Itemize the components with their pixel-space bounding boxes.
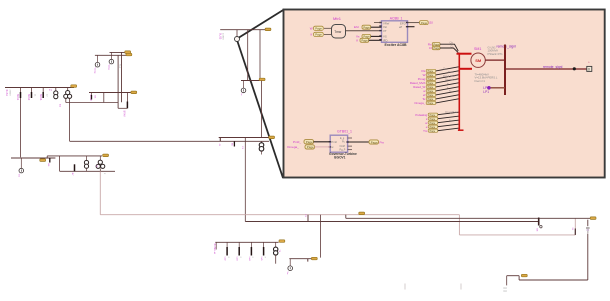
page tag pair feeding machine upper input: [428, 42, 458, 51]
callout circle (zoom source marker): [235, 37, 240, 42]
page tag Rated_W: [413, 83, 459, 89]
svg-text:remote_signl: remote_signl: [497, 45, 517, 49]
wire SRC1 down: [587, 234, 589, 281]
page tag Pmag: [418, 75, 460, 81]
jog riser: [518, 276, 520, 280]
svg-text:BUS3: BUS3: [218, 33, 221, 40]
wire tag-to-Tmw: [324, 27, 332, 29]
svg-text:Page: Page: [361, 39, 368, 43]
wire Omega_0 to governor (light): [315, 146, 331, 148]
pin1 stub left top: [374, 22, 382, 24]
long feeder FD3 (dark): [346, 217, 591, 219]
tag on bus B5: [269, 136, 275, 139]
svg-text:Page: Page: [421, 21, 428, 25]
wire W3: [241, 80, 263, 82]
wire LP to bus: [491, 87, 506, 89]
feeder FD3 jog: [345, 215, 347, 219]
svg-text:IFD: IFD: [383, 38, 388, 42]
transformer T6: [275, 242, 277, 247]
svg-text:Page: Page: [306, 140, 313, 144]
block Tmw: [332, 25, 346, 39]
tag on bus B1: [71, 85, 77, 88]
tag on S4b: [103, 154, 109, 157]
page tag Rated_MVA: [410, 79, 459, 85]
bus B6: [215, 241, 278, 243]
breaker BRK8: [538, 218, 540, 226]
source symbol SRC1: [586, 227, 590, 229]
svg-text:230kV: 230kV: [9, 90, 11, 97]
page tag Fls: [421, 67, 459, 73]
breaker BRK5: [91, 93, 93, 96]
stub to zoom marker: [236, 30, 238, 37]
tag on W3: [259, 78, 265, 81]
svg-text:Page: Page: [430, 126, 436, 129]
bus B5 upper: [219, 137, 271, 139]
transformer T5 (3-winding): [99, 156, 101, 160]
meter M3: [243, 81, 245, 89]
page tag Pm out: [369, 140, 379, 144]
svg-text:Page: Page: [434, 43, 440, 46]
svg-text:Page: Page: [430, 122, 436, 125]
page tag Pulsating: [415, 112, 459, 117]
wire FD1 tap to G cluster: [319, 215, 321, 258]
wire W5: [289, 258, 311, 260]
svg-text:Page: Page: [315, 27, 322, 31]
callout line bottom: [238, 42, 284, 179]
feeder breaker FB5: [263, 242, 265, 247]
svg-text:PSlack=0T1: PSlack=0T1: [488, 52, 504, 56]
svg-text:Page: Page: [428, 94, 434, 97]
feeder breaker BRK1: [20, 88, 22, 93]
svg-text:+: +: [588, 61, 590, 65]
net labels: [450, 42, 454, 48]
svg-text:AC8B_1: AC8B_1: [390, 16, 403, 20]
net name labels on wires: [443, 68, 447, 70]
exciter pin nubs: [379, 22, 408, 41]
wire B5 to lower feeder: [244, 138, 246, 222]
callout line top: [239, 10, 284, 38]
svg-text:Pm0: Pm0: [332, 140, 338, 144]
svg-text:Page: Page: [428, 82, 434, 85]
wire W7: [507, 275, 519, 277]
feeder breaker BRK3: [42, 88, 44, 93]
tag on FD3 end: [590, 217, 596, 220]
wire S4 drop: [59, 156, 61, 171]
svg-text:Rated_MVA: Rated_MVA: [443, 75, 456, 78]
svg-text:VT: VT: [383, 29, 387, 33]
svg-text:Page: Page: [428, 90, 434, 93]
svg-text:Omega_: Omega_: [414, 101, 425, 105]
wire B3 to W3: [247, 30, 249, 81]
tag on W7: [521, 274, 527, 277]
tag on S4a: [40, 159, 46, 162]
LP dot: [487, 86, 491, 90]
wire S4 collector: [60, 170, 115, 172]
bus B5 lower: [70, 140, 269, 142]
svg-text:Page: Page: [315, 33, 322, 37]
red wire to machine upper input: [457, 53, 472, 55]
ground mark A: [404, 284, 406, 290]
stub on W5: [307, 259, 309, 262]
transmission line TL1 conductor b: [121, 52, 123, 102]
long wire to terminator: [505, 68, 588, 70]
terminator box: [587, 66, 592, 71]
wire T2 tertiary: [65, 98, 67, 102]
block exciter AC8B: [382, 21, 408, 43]
page tag s: [426, 116, 459, 121]
svg-text:E_g: E_g: [340, 137, 345, 140]
svg-text:Page: Page: [428, 78, 434, 81]
svg-text:Vmag: Vmag: [94, 68, 96, 74]
svg-text:BRK1: BRK1: [16, 94, 19, 101]
feeder stub FB1: [215, 242, 217, 249]
wire Tmw to exciter pin3: [346, 30, 382, 32]
svg-text:LP1: LP1: [483, 90, 489, 94]
transformer T4: [86, 156, 88, 161]
wire Pm0_ to governor: [314, 141, 331, 143]
svg-text:Efd: Efd: [354, 25, 359, 29]
output tag Ef: [420, 21, 429, 25]
tag on W5: [311, 257, 317, 260]
meter M4: [20, 158, 22, 168]
svg-text:SM: SM: [475, 58, 482, 63]
svg-text:Page: Page: [430, 114, 436, 117]
page tag Tm: [423, 128, 459, 133]
svg-text:Page: Page: [428, 102, 434, 105]
tag pair on W1/W2: [125, 51, 131, 54]
tap component on FD1: [307, 215, 309, 222]
page tag Te: [422, 95, 459, 101]
wire T5 to long feeder: [99, 168, 101, 171]
svg-text:Pulse: Pulse: [448, 72, 454, 74]
svg-text:Page: Page: [428, 98, 434, 101]
svg-text:BUS1: BUS1: [5, 90, 8, 97]
wire TL1 bottom: [118, 107, 127, 109]
svg-text:BRK4: BRK4: [123, 111, 126, 118]
ground mark B: [460, 284, 462, 290]
svg-text:GTB01_1: GTB01_1: [337, 129, 352, 133]
breaker BRK7: [74, 164, 76, 171]
svg-text:BRK3: BRK3: [39, 94, 42, 101]
wire tag-to-Tmw lower: [324, 34, 332, 36]
exciter output wire right: [408, 22, 420, 24]
svg-text:Pm: Pm: [380, 140, 385, 144]
wire W2: [110, 51, 128, 53]
svg-text:Page: Page: [307, 145, 314, 149]
svg-text:If: If: [311, 33, 313, 37]
wire bus B2 to T2 tertiary: [103, 93, 105, 103]
svg-text:Cl: Cl: [429, 46, 432, 50]
svg-text:Page: Page: [363, 25, 370, 29]
wire bus B1 to station S4: [20, 98, 22, 157]
stub below tag: [587, 220, 589, 227]
svg-text:If: If: [356, 38, 358, 42]
meter M2: [110, 52, 112, 59]
machine SM circle: [471, 53, 485, 67]
page tag Omega_: [414, 99, 459, 105]
svg-text:eff: eff: [399, 25, 402, 29]
FD1 elbow down: [458, 215, 460, 235]
svg-text:SM1: SM1: [474, 47, 481, 51]
svg-text:Pm0_: Pm0_: [293, 140, 301, 144]
tag on bus B3: [265, 28, 271, 31]
svg-text:Page: Page: [430, 130, 436, 133]
svg-text:BGOV1: BGOV1: [334, 155, 345, 159]
svg-text:BUS6: BUS6: [213, 244, 216, 251]
svg-text:Vtc: Vtc: [383, 25, 388, 29]
FD1 series element: [574, 229, 576, 235]
svg-text:Mtr1: Mtr1: [333, 16, 342, 21]
FD1 bottom run: [459, 234, 575, 236]
wire S4a: [11, 157, 55, 159]
svg-text:Fterm=1: Fterm=1: [475, 79, 486, 83]
long feeder FD2 (dark): [245, 221, 538, 223]
svg-text:Omega_: Omega_: [287, 145, 299, 149]
svg-text:Ef: Ef: [430, 21, 433, 25]
red signal rail: [458, 53, 464, 131]
transmission line TL1 conductor a: [117, 55, 119, 108]
svg-text:OmegaPuls: OmegaPuls: [445, 112, 458, 114]
FD1 riser: [574, 218, 576, 235]
feeder breaker FB4: [250, 242, 252, 247]
wire S4b: [47, 155, 102, 157]
svg-text:Tmw: Tmw: [334, 30, 342, 34]
svg-text:remote_signl: remote_signl: [543, 65, 563, 69]
svg-text:w: w: [332, 146, 334, 149]
page tag W: [423, 71, 460, 77]
bus vertical: [504, 45, 506, 96]
bus B2: [89, 92, 131, 94]
svg-text:OmegaLm: OmegaLm: [445, 80, 456, 82]
feeder breaker BRK2: [31, 88, 33, 93]
jog S4a-S4b: [46, 156, 48, 158]
page tag e: [426, 124, 460, 129]
svg-text:Page: Page: [428, 86, 434, 89]
wire W1: [95, 54, 127, 56]
svg-text:BRK2: BRK2: [27, 94, 30, 101]
meter M5: [289, 259, 291, 266]
jumper B5: [219, 138, 221, 142]
wire bottom run: [519, 279, 588, 281]
feeder breaker FB2: [226, 242, 228, 247]
machine output wire: [485, 59, 505, 61]
svg-text:Exciter AC8B: Exciter AC8B: [385, 43, 408, 47]
tag on bus B2: [131, 91, 137, 94]
svg-text:Tm: Tm: [423, 129, 428, 133]
svg-text:W: W: [310, 27, 313, 31]
eff stub right: [408, 26, 415, 28]
block governor-turbine U3: [330, 135, 347, 152]
transformer T1: [55, 88, 57, 92]
governor right pin stubs: [348, 137, 352, 139]
wire W3 to bus B5: [261, 81, 263, 138]
svg-text:Page: Page: [430, 118, 436, 121]
long feeder FD1 (light): [99, 171, 101, 214]
bus B1: [5, 87, 74, 89]
wire B3 to W3 second: [259, 30, 261, 81]
wire T6 down: [275, 255, 277, 264]
page tag w: [425, 120, 459, 125]
page tag w: [423, 87, 459, 93]
breaker BRK6: [233, 141, 235, 146]
svg-text:Page: Page: [371, 140, 378, 144]
wire W7 end drop: [506, 276, 508, 286]
svg-text:Vang: Vang: [107, 65, 109, 71]
svg-text:Page: Page: [434, 47, 440, 50]
svg-text:Page: Page: [428, 70, 434, 73]
feeder breaker FB3: [238, 242, 240, 247]
breaker BRK4: [126, 102, 128, 109]
svg-text:Page: Page: [428, 74, 434, 77]
inset frame: [284, 10, 605, 178]
svg-text:Vm: Vm: [18, 174, 20, 177]
page tag ef: [423, 91, 459, 97]
wire T2 secondary to bus B5: [69, 98, 71, 141]
red wire to machine lower input: [459, 68, 472, 70]
svg-text:13.8kV: 13.8kV: [222, 33, 224, 40]
transformer T3: [261, 141, 263, 142]
governor output wire: [348, 141, 369, 143]
breaker tick S4: [49, 158, 51, 163]
tag on FD1: [359, 212, 365, 215]
svg-text:0: 0: [588, 68, 590, 72]
transformer T2 (3-winding): [67, 88, 69, 91]
tag on bus B6: [279, 240, 285, 243]
bus B3: [220, 29, 268, 31]
junction dot: [573, 67, 576, 70]
governor pin nubs: [329, 141, 349, 147]
meter M1: [97, 55, 99, 62]
